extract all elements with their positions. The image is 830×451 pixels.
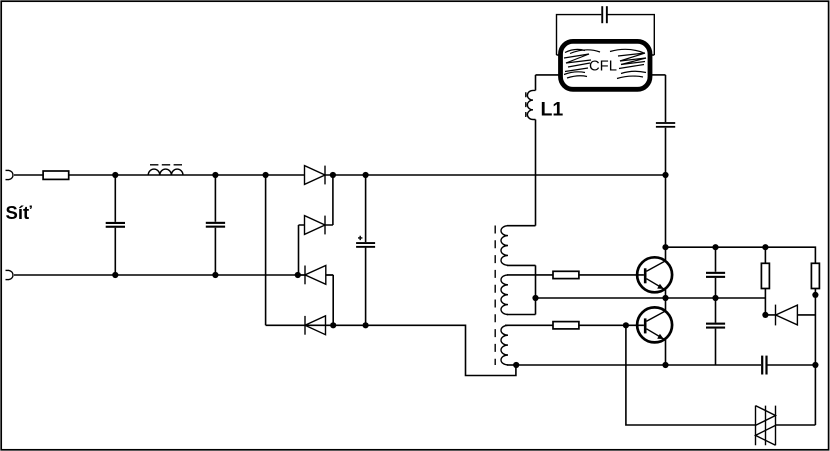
capacitor C8 (DC block at lamp) <box>656 122 675 128</box>
diode D3 <box>298 266 333 285</box>
node top rail at C4 <box>712 244 718 250</box>
terminal J1 (mains top) <box>6 170 14 179</box>
wire lamp return / DC+ to Q1 collector column <box>665 75 667 261</box>
capacitor C4 <box>706 247 725 298</box>
node top AC at bridge <box>263 172 269 178</box>
diode D5 <box>765 305 815 326</box>
capacitor C7 (across lamp, top) <box>557 6 655 55</box>
node D1 cathode <box>330 172 336 178</box>
wire bottom bus <box>516 364 815 366</box>
diode D4 <box>305 316 326 335</box>
wire top-right rail <box>666 247 816 263</box>
node top AC at C1 <box>112 172 118 178</box>
transformer winding W2 <box>501 275 536 315</box>
resistor R4 <box>811 263 819 365</box>
capacitor C3 electrolytic <box>356 175 375 325</box>
wire lamp right lead <box>650 74 666 76</box>
wire D2 anode down to AC bottom <box>298 225 300 275</box>
resistor R1 <box>553 271 579 278</box>
wire top AC / DC+ bus <box>14 174 666 176</box>
node top rail at Q1 collector <box>662 244 668 250</box>
svg-text:Síť: Síť <box>6 202 32 223</box>
node Q2 base <box>623 322 629 328</box>
inductor filter (mains choke) <box>148 165 183 175</box>
wire lamp left lead <box>536 74 561 76</box>
capacitor C5 <box>706 298 725 365</box>
node Q2 emitter <box>662 362 668 368</box>
wire diac to right column <box>776 365 816 425</box>
node R4 bottom <box>812 292 818 298</box>
transistor Q1 <box>637 257 672 298</box>
svg-text:L1: L1 <box>541 99 564 121</box>
node top rail at R3 <box>762 244 768 250</box>
node bottom AC at C2 <box>212 272 218 278</box>
node mid rail at C5 <box>712 295 718 301</box>
node bottom bus right <box>812 362 818 368</box>
diac D6 <box>756 406 776 446</box>
node top AC at C2 <box>212 172 218 178</box>
node bottom AC at C1 <box>112 272 118 278</box>
resistor R2 <box>553 322 579 329</box>
lamp CFL body <box>561 41 651 89</box>
wire bottom AC <box>14 274 333 276</box>
wire D1 cathode down to D2 <box>332 175 334 225</box>
wire Q1 base line <box>507 274 644 276</box>
capacitor C6 (series, horizontal) <box>761 356 768 375</box>
transformer winding W3 <box>501 325 516 365</box>
svg-text:CFL: CFL <box>589 59 617 75</box>
node DC+ at C3 <box>363 172 369 178</box>
inductor L1 <box>526 75 536 226</box>
lamp filament left <box>564 49 600 78</box>
diode D2 <box>299 216 333 235</box>
transistor Q2 <box>637 298 672 365</box>
node mid rail at transistors <box>662 295 668 301</box>
resistor R3 <box>761 247 769 315</box>
fuse F1 <box>43 171 69 179</box>
node DC- at D4 <box>330 322 336 328</box>
node DC- at C3 <box>363 322 369 328</box>
node bottom AC at bridge <box>295 272 301 278</box>
lamp filament right <box>610 49 646 78</box>
wire D3 anode down to DC- <box>332 275 334 325</box>
wire mid rail (half-bridge midpoint) <box>536 297 766 299</box>
terminal J2 (mains bottom) <box>6 270 14 279</box>
wire Q2 base line <box>505 324 644 326</box>
transformer core <box>494 226 496 366</box>
node W1-W2 junction <box>532 295 538 301</box>
wire bridge left vertical <box>265 175 267 325</box>
wire DC- bus <box>266 325 516 375</box>
diode D1 <box>305 166 326 185</box>
transformer winding W1 <box>501 226 536 298</box>
capacitor C2 <box>206 175 225 275</box>
node W3 bottom <box>513 362 519 368</box>
node R3 bottom at D5 <box>762 312 768 318</box>
wire Q2 base to diac <box>626 325 756 425</box>
node DC+ at lamp column <box>662 172 668 178</box>
capacitor C1 <box>106 175 125 275</box>
